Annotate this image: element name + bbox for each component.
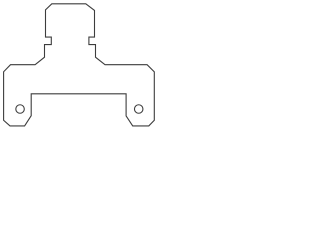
- part outline: [4, 4, 155, 126]
- hole H1 (left mounting hole): [16, 105, 25, 114]
- hole H2 (right mounting hole): [134, 105, 143, 114]
